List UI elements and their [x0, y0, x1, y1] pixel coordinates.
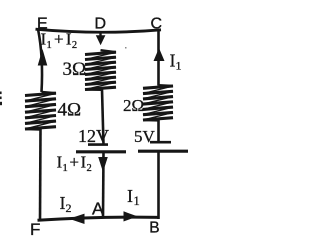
- svg-text:A: A: [92, 199, 104, 219]
- svg-text:3Ω: 3Ω: [63, 59, 87, 80]
- svg-text:B: B: [149, 220, 159, 237]
- svg-text:C: C: [151, 15, 163, 32]
- svg-text:5V: 5V: [134, 127, 156, 146]
- svg-text:F: F: [30, 220, 40, 236]
- svg-text:D: D: [95, 15, 107, 32]
- svg-text:2Ω: 2Ω: [123, 96, 144, 115]
- svg-text:12V: 12V: [78, 126, 109, 146]
- svg-text:4Ω: 4Ω: [58, 100, 82, 121]
